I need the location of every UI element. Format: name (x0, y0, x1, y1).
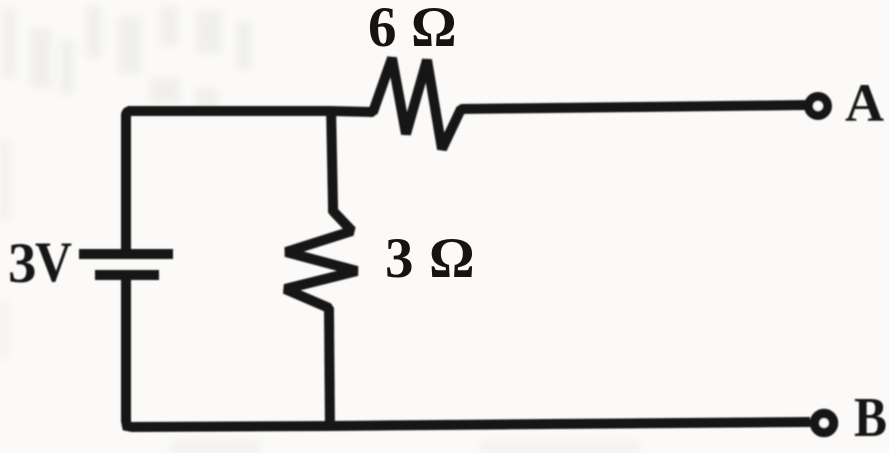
svg-text:A: A (845, 73, 884, 133)
wire middle vertical upper (node at top rail) (331, 107, 333, 213)
svg-text:Ω: Ω (429, 227, 475, 290)
wire top rail from resistor R1 to terminal A (461, 105, 807, 109)
battery V1 top plate (79, 249, 173, 259)
terminal A circle (809, 97, 828, 116)
battery V1 bottom plate (95, 270, 159, 280)
resistor R1 6 ohm zigzag (369, 58, 465, 149)
wire middle vertical lower (node at bottom rail) (329, 308, 330, 430)
wire left vertical and top rail from battery to resistor R1 (126, 111, 373, 254)
svg-text:V: V (35, 231, 72, 294)
svg-text:Ω: Ω (411, 0, 457, 59)
svg-text:3: 3 (8, 232, 37, 295)
faint page bleed-through ghosting (decorative scan artifacts) (0, 6, 640, 453)
resistor R2 3 ohm zigzag (285, 206, 357, 314)
svg-text:6: 6 (368, 0, 397, 59)
svg-text:B: B (854, 387, 887, 449)
terminal B circle (815, 414, 834, 433)
svg-text:3: 3 (385, 227, 414, 290)
wire left vertical lower and bottom rail (126, 275, 810, 427)
